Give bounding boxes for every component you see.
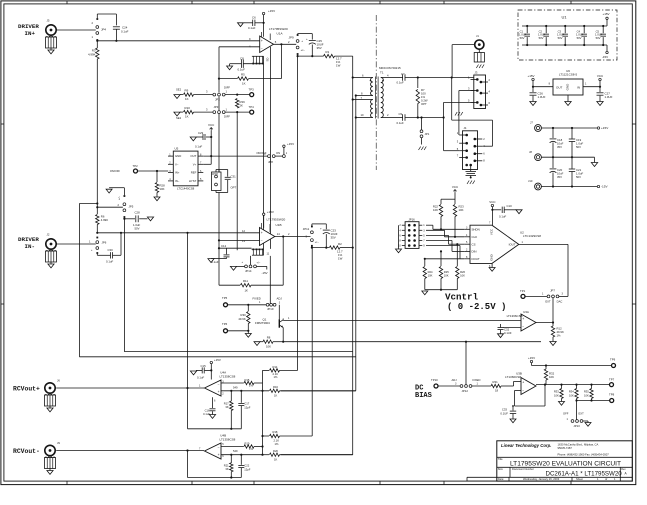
port label DRIVER IN+ bbox=[18, 23, 39, 37]
label Vcntrl bbox=[445, 292, 506, 312]
wire U5 OUT to JP8 bbox=[203, 155, 267, 157]
rail transformer left A bbox=[352, 56, 354, 455]
svg-text:C12: C12 bbox=[221, 244, 227, 248]
svg-text:R15: R15 bbox=[245, 378, 250, 382]
svg-text:+/−: +/− bbox=[301, 48, 306, 52]
capacitor C30 bbox=[97, 233, 121, 263]
isolation barrier dashed line bbox=[375, 15, 377, 170]
svg-text:10K: 10K bbox=[459, 208, 464, 212]
wire JP11 rail down to R18 bbox=[311, 248, 313, 436]
wire U4B inverting row bbox=[221, 454, 263, 456]
svg-text:Linear Technology Corp.: Linear Technology Corp. bbox=[501, 443, 551, 448]
test point TP6 bbox=[222, 322, 228, 333]
svg-text:C29: C29 bbox=[198, 131, 204, 135]
svg-text:-15V: -15V bbox=[601, 185, 608, 189]
svg-text:R34: R34 bbox=[569, 390, 574, 394]
capacitor C20 polarized bbox=[550, 157, 564, 186]
transformer T1 MIDCOM 50215 bbox=[364, 66, 401, 119]
svg-text:0.1uF: 0.1uF bbox=[238, 68, 246, 72]
ground J9 shield bbox=[45, 456, 56, 475]
capacitor C10 bbox=[492, 204, 517, 218]
svg-text:JP2: JP2 bbox=[215, 98, 220, 102]
svg-text:1630 McCarthy Blvd., Milpitas,: 1630 McCarthy Blvd., Milpitas, CA bbox=[558, 442, 599, 446]
svg-text:4.99K: 4.99K bbox=[88, 53, 96, 57]
svg-text:+15V: +15V bbox=[287, 142, 294, 146]
wire T1 primary left bbox=[352, 76, 364, 100]
svg-text:HYST: HYST bbox=[189, 179, 197, 183]
svg-text:LT1121CS8-5: LT1121CS8-5 bbox=[559, 73, 578, 77]
wire JP11 top to C23 bbox=[312, 224, 326, 229]
capacitor C15 bbox=[196, 364, 211, 380]
svg-text:SD: SD bbox=[266, 58, 270, 62]
wire R34 R35 to TP8 bbox=[577, 399, 610, 401]
svg-text:R14: R14 bbox=[273, 365, 278, 369]
svg-text:GND: GND bbox=[175, 154, 181, 158]
jumper JP18 bbox=[212, 172, 222, 191]
svg-text:U1A: U1A bbox=[277, 32, 284, 36]
power +15V bypass bbox=[602, 12, 609, 26]
svg-text:R5: R5 bbox=[241, 72, 245, 76]
capacitor C17 bbox=[238, 391, 250, 429]
wire U1B output bbox=[275, 232, 311, 238]
svg-text:0.1uF: 0.1uF bbox=[197, 375, 204, 379]
wire rail A down to R20 row bbox=[281, 454, 353, 456]
wire J3 pin5 net bbox=[443, 102, 474, 150]
svg-text:C1: C1 bbox=[520, 29, 524, 33]
svg-text:C2: C2 bbox=[539, 29, 543, 33]
capacitor C28 bbox=[123, 211, 147, 231]
svg-text:R18: R18 bbox=[273, 430, 278, 434]
banana jack J7 bbox=[530, 121, 541, 132]
BNC connector J1 bbox=[475, 34, 484, 49]
ground JP16 bbox=[396, 225, 402, 253]
banana jack J8 bbox=[529, 150, 541, 161]
wire U4B output to RCVout- bbox=[56, 449, 204, 451]
svg-text:50V: 50V bbox=[520, 36, 525, 40]
wire R1 to transformer rail bbox=[335, 55, 353, 57]
resistor R16 bbox=[270, 385, 356, 398]
ground R30 bbox=[245, 331, 251, 337]
bypass group U1 dashed box bbox=[518, 10, 617, 60]
wire U3A feedback loop bbox=[540, 323, 542, 342]
svg-text:C17: C17 bbox=[244, 402, 249, 406]
svg-text:R24: R24 bbox=[428, 270, 433, 274]
wire JP12 to R31 bbox=[472, 385, 491, 387]
svg-text:DIN: DIN bbox=[472, 250, 477, 254]
wire JP18 C31 net bbox=[216, 170, 228, 241]
ground C10 bbox=[516, 210, 522, 214]
svg-text:R33: R33 bbox=[554, 390, 559, 394]
power -15V bypass bbox=[602, 45, 608, 59]
banana jack J10 bbox=[528, 179, 541, 190]
power VCC R22 R23 bbox=[441, 185, 459, 204]
ground C33 bbox=[510, 419, 516, 423]
svg-text:DIFF: DIFF bbox=[224, 115, 230, 119]
ground C28 bbox=[147, 217, 153, 221]
svg-text:IN-: IN- bbox=[25, 243, 35, 250]
jumper JP11 bbox=[303, 226, 319, 247]
svg-text:50V: 50V bbox=[558, 36, 563, 40]
svg-text:1K: 1K bbox=[274, 458, 277, 462]
svg-text:0.1uF: 0.1uF bbox=[248, 26, 256, 30]
svg-text:R2: R2 bbox=[338, 242, 342, 246]
svg-text:1.0UF: 1.0UF bbox=[557, 33, 565, 37]
wire U4A output to U1B input rail bbox=[187, 233, 189, 429]
compensation pin stub U4A bbox=[213, 397, 217, 408]
svg-text:LT1795SW20: LT1795SW20 bbox=[267, 218, 286, 222]
svg-text:Wednesday, January 26, 2003: Wednesday, January 26, 2003 bbox=[523, 477, 560, 481]
svg-text:LT1358CS8: LT1358CS8 bbox=[220, 374, 236, 378]
wire C25 bottom to R1 bbox=[297, 45, 324, 58]
svg-text:U1B: U1B bbox=[276, 223, 282, 227]
ground R33 bbox=[559, 402, 565, 406]
wire R15 to node bbox=[261, 383, 263, 392]
jumper JP13 bbox=[563, 412, 584, 428]
BNC connector J9 bbox=[45, 441, 61, 456]
capacitor C26 bbox=[530, 87, 546, 102]
rail JP6 branch to U4 region bbox=[79, 356, 355, 358]
op-amp U1B bbox=[260, 218, 286, 246]
svg-text:TP7: TP7 bbox=[609, 378, 615, 382]
test point TP5 bbox=[222, 296, 228, 307]
wire J1 to J3 bbox=[452, 45, 475, 78]
power -15V JP14 bbox=[257, 266, 268, 275]
svg-text:12: 12 bbox=[242, 229, 245, 233]
svg-text:1K: 1K bbox=[185, 114, 189, 118]
svg-text:10K: 10K bbox=[266, 344, 271, 348]
svg-text:FMMT3904: FMMT3904 bbox=[255, 321, 270, 325]
resistor R15 bbox=[221, 378, 263, 390]
op-amp U3A bbox=[507, 310, 536, 331]
svg-text:+: + bbox=[261, 39, 263, 43]
wire JP7 to R12 node bbox=[552, 298, 554, 324]
svg-text:R19: R19 bbox=[245, 441, 250, 445]
port label DRIVER IN- bbox=[18, 236, 39, 250]
ground R24 R25 R26 bbox=[422, 289, 458, 295]
connector J4 bbox=[457, 126, 486, 170]
resistor R26 bbox=[456, 243, 466, 290]
ground R8 bbox=[254, 342, 260, 346]
svg-text:VCC: VCC bbox=[597, 74, 604, 78]
svg-text:ADJ: ADJ bbox=[277, 297, 283, 301]
svg-text:JP3: JP3 bbox=[214, 105, 219, 109]
test point TP2 bbox=[110, 164, 138, 173]
svg-text:18: 18 bbox=[495, 389, 499, 393]
svg-text:Size: Size bbox=[498, 467, 504, 471]
svg-text:JP18: JP18 bbox=[212, 172, 218, 176]
rail JP5 branch to U4 region bbox=[124, 351, 352, 353]
svg-text:ON: ON bbox=[276, 151, 280, 155]
resistor R2 bbox=[329, 242, 343, 261]
power VCC U2 bbox=[489, 200, 496, 207]
svg-text:0.1UF: 0.1UF bbox=[500, 412, 508, 416]
svg-text:J3: J3 bbox=[475, 71, 478, 75]
svg-text:VCC: VCC bbox=[490, 229, 494, 235]
svg-text:JP6: JP6 bbox=[102, 241, 107, 245]
svg-text:−: − bbox=[522, 325, 524, 329]
svg-text:1%: 1% bbox=[557, 334, 562, 338]
power +15V JP8 bbox=[283, 142, 294, 155]
capacitor C1 bbox=[519, 25, 530, 46]
resistor R7 bbox=[416, 78, 428, 119]
svg-text:TP3: TP3 bbox=[249, 87, 255, 91]
svg-text:Date:: Date: bbox=[498, 477, 504, 481]
svg-text:+: + bbox=[218, 390, 220, 394]
resistor R10 bbox=[174, 106, 213, 120]
svg-text:R21: R21 bbox=[224, 464, 229, 468]
svg-text:R8: R8 bbox=[267, 336, 271, 340]
svg-text:35V: 35V bbox=[557, 145, 562, 149]
wire U3B feedback bbox=[515, 384, 547, 407]
ground J8 bbox=[591, 163, 597, 167]
svg-text:C16: C16 bbox=[205, 409, 210, 413]
svg-text:0.1uF: 0.1uF bbox=[397, 121, 404, 125]
ground U6 GND pin bbox=[565, 95, 571, 106]
capacitor C31 bbox=[225, 170, 237, 193]
svg-text:1K: 1K bbox=[274, 394, 277, 398]
jumper JP5 bbox=[117, 195, 134, 218]
svg-text:TP8: TP8 bbox=[609, 392, 615, 396]
svg-text:OPT: OPT bbox=[421, 102, 427, 106]
wire U3B output bbox=[536, 384, 610, 386]
ground J6 shield bbox=[45, 393, 56, 412]
ground C26 bbox=[530, 102, 536, 106]
jumper JP10 bbox=[253, 297, 283, 312]
wire TP10 to JP12 bbox=[438, 382, 460, 386]
svg-text:35V: 35V bbox=[317, 46, 322, 50]
svg-text:+15V: +15V bbox=[268, 9, 275, 13]
resistor R39 bbox=[236, 99, 246, 109]
resistor R6 bbox=[96, 204, 109, 233]
svg-text:IOUT: IOUT bbox=[509, 242, 516, 246]
ground JP5 bbox=[106, 188, 124, 195]
jumper JP9 bbox=[289, 34, 306, 55]
svg-text:JP12: JP12 bbox=[462, 389, 469, 393]
svg-text:+: + bbox=[218, 453, 220, 457]
svg-text:-15V: -15V bbox=[262, 271, 268, 275]
test point TP7 bbox=[609, 378, 615, 387]
capacitor C32 bbox=[498, 324, 522, 335]
wire JP10 pin2 up bbox=[269, 256, 271, 304]
resistor R28 bbox=[154, 171, 165, 201]
wire SD bus verticals bbox=[264, 47, 271, 255]
wire C23 bottom to R2 bbox=[311, 234, 329, 249]
capacitor C4 bbox=[576, 25, 587, 46]
svg-text:+: + bbox=[320, 227, 322, 231]
wire to JP5 bbox=[96, 203, 123, 208]
capacitor C12 bbox=[211, 244, 252, 264]
svg-text:OUT: OUT bbox=[556, 86, 563, 90]
ground JP1 bbox=[419, 138, 427, 150]
BNC connector J6 bbox=[45, 379, 61, 394]
ground JP14 bbox=[230, 266, 244, 270]
svg-text:10: 10 bbox=[361, 113, 364, 117]
svg-text:10K: 10K bbox=[460, 274, 465, 278]
svg-text:V−: V− bbox=[175, 162, 179, 166]
svg-text:CLK: CLK bbox=[472, 235, 478, 239]
svg-text:J1: J1 bbox=[476, 34, 479, 38]
resistor R33 bbox=[554, 384, 563, 402]
wire rail B to R16 row bbox=[281, 390, 356, 392]
capacitor C2 bbox=[538, 25, 549, 46]
rail transformer left B bbox=[355, 96, 357, 391]
svg-text:4.99K: 4.99K bbox=[101, 218, 108, 222]
svg-text:GND: GND bbox=[566, 83, 570, 91]
IC U5 LTC1440CS8 bbox=[168, 146, 203, 190]
svg-text:ADJ: ADJ bbox=[452, 378, 458, 382]
svg-text:TP2: TP2 bbox=[133, 164, 139, 168]
svg-text:DC261A-A1 * LT1795SW20: DC261A-A1 * LT1795SW20 bbox=[546, 471, 623, 478]
svg-text:TP9: TP9 bbox=[610, 358, 616, 362]
wire JP4 top loop to C24 bbox=[97, 14, 116, 25]
wire R5 to U1A output bbox=[280, 43, 282, 78]
svg-text:10K: 10K bbox=[584, 393, 589, 397]
svg-text:C6: C6 bbox=[252, 16, 256, 20]
svg-text:C31: C31 bbox=[231, 175, 237, 179]
svg-text:+15V: +15V bbox=[267, 210, 274, 214]
wire T1 secondary taps bbox=[355, 94, 364, 118]
wire pin block to JP14 bbox=[219, 240, 251, 264]
pin numbers U1B bbox=[242, 229, 280, 243]
jumper JP4 bbox=[92, 18, 107, 41]
resistor R14 bbox=[263, 365, 298, 383]
wire C24 to +input rail bbox=[96, 29, 260, 42]
svg-text:JP10: JP10 bbox=[267, 307, 274, 311]
svg-text:DRIVER: DRIVER bbox=[18, 236, 39, 243]
wire U4B feedback loop bbox=[188, 451, 242, 479]
capacitor C5 bbox=[595, 25, 606, 46]
resistor R3 bbox=[88, 41, 99, 59]
power +15V U4A bbox=[210, 358, 221, 380]
svg-text:JP7: JP7 bbox=[550, 289, 555, 293]
svg-text:JP5: JP5 bbox=[129, 205, 134, 209]
port label RCVout- bbox=[13, 448, 40, 455]
resistor R9 bbox=[174, 88, 213, 101]
svg-text:RCVout+: RCVout+ bbox=[13, 386, 40, 393]
svg-text:R1: R1 bbox=[326, 50, 330, 54]
capacitor C27 bbox=[597, 87, 613, 102]
svg-text:JP1: JP1 bbox=[425, 132, 430, 136]
svg-text:C5: C5 bbox=[596, 29, 600, 33]
svg-text:R17: R17 bbox=[224, 402, 229, 406]
ground U2 GND pin bbox=[489, 263, 495, 271]
svg-text:C22: C22 bbox=[244, 464, 249, 468]
port label RCVout+ bbox=[13, 386, 40, 393]
svg-text:JP13: JP13 bbox=[573, 424, 580, 428]
svg-text:0.1uF: 0.1uF bbox=[195, 145, 202, 149]
capacitor C16 bbox=[203, 409, 215, 417]
resistor R19 bbox=[221, 441, 263, 453]
svg-text:+: + bbox=[306, 37, 308, 41]
label U1 bbox=[561, 15, 567, 20]
svg-text:LT1795SW20 EVALUATION CIRCUIT: LT1795SW20 EVALUATION CIRCUIT bbox=[510, 460, 621, 467]
capacitor C29 bbox=[195, 131, 212, 149]
svg-text:IN+: IN+ bbox=[175, 171, 180, 175]
resistor R24 bbox=[423, 258, 433, 290]
svg-text:1K: 1K bbox=[245, 288, 249, 292]
jumper JP1 bbox=[420, 116, 430, 137]
svg-text:10K: 10K bbox=[569, 393, 574, 397]
wire J3 pin3 net bbox=[459, 91, 474, 136]
svg-text:DRIVER: DRIVER bbox=[18, 23, 39, 30]
test point TP9 bbox=[610, 358, 616, 368]
ground J5 shield bbox=[46, 35, 57, 54]
capacitor C8 bbox=[230, 57, 246, 72]
svg-text:OUT: OUT bbox=[190, 154, 196, 158]
jumper JP12 bbox=[452, 378, 481, 393]
pin numbers U4A bbox=[199, 380, 224, 395]
svg-text:50V: 50V bbox=[135, 226, 140, 230]
ground stub J3 bbox=[455, 112, 463, 116]
svg-text:C3: C3 bbox=[558, 29, 562, 33]
svg-text:BIAS: BIAS bbox=[415, 392, 432, 400]
svg-text:C8: C8 bbox=[240, 57, 244, 61]
wire J8 ground bbox=[541, 156, 594, 162]
capacitor C22 bbox=[238, 455, 250, 478]
power +15V U3B bbox=[528, 356, 535, 366]
capacitor C7 bbox=[389, 72, 405, 84]
wire inverting rail down bbox=[218, 97, 220, 173]
svg-text:50V: 50V bbox=[576, 175, 581, 179]
svg-text:TP10: TP10 bbox=[431, 378, 438, 382]
test point TP4 bbox=[249, 105, 255, 114]
svg-text:−: − bbox=[261, 47, 263, 51]
resistor R35 bbox=[584, 384, 593, 401]
ground C8 bbox=[227, 64, 233, 70]
capacitor C21 bbox=[569, 157, 584, 186]
wire feedback line U3A bbox=[283, 341, 541, 343]
resistor R25 bbox=[439, 250, 449, 289]
svg-text:SHDN: SHDN bbox=[472, 227, 480, 231]
ground C29 bbox=[190, 137, 196, 141]
wire Q1 collector line bbox=[283, 317, 521, 321]
svg-text:10K: 10K bbox=[433, 208, 438, 212]
svg-text:TP4: TP4 bbox=[249, 105, 255, 109]
svg-text:OPT: OPT bbox=[231, 186, 237, 190]
title block box bbox=[467, 441, 632, 481]
svg-text:J10: J10 bbox=[528, 179, 533, 183]
svg-text:1.0UF: 1.0UF bbox=[605, 95, 613, 99]
svg-text:1.0UF: 1.0UF bbox=[538, 33, 546, 37]
svg-text:49.9K: 49.9K bbox=[238, 317, 245, 321]
svg-text:TP6: TP6 bbox=[222, 322, 228, 326]
svg-text:1%: 1% bbox=[249, 384, 253, 388]
ground C6 bbox=[238, 23, 244, 27]
svg-text:JP9: JP9 bbox=[289, 36, 295, 40]
svg-text:+: + bbox=[301, 39, 303, 43]
IC U6 LT1121CS8-5 bbox=[549, 69, 587, 95]
jumper JP3 bbox=[206, 105, 230, 119]
svg-text:LT1358CS8: LT1358CS8 bbox=[220, 437, 236, 441]
wire J5 to JP4 bbox=[56, 29, 96, 31]
power +15V U1A bbox=[262, 9, 275, 37]
svg-text:50V: 50V bbox=[577, 36, 582, 40]
svg-text:SE2: SE2 bbox=[176, 88, 182, 92]
BNC connector J2 bbox=[46, 233, 56, 250]
svg-text:1K: 1K bbox=[185, 97, 189, 101]
svg-text:J7: J7 bbox=[530, 121, 533, 125]
capacitor C23 polarized bbox=[320, 227, 338, 240]
transistor Q1 FMMT3904 bbox=[255, 305, 283, 342]
svg-text:0.1uF: 0.1uF bbox=[203, 412, 210, 416]
svg-text:1%: 1% bbox=[249, 447, 253, 451]
svg-text:R20: R20 bbox=[273, 449, 278, 453]
long rail from JP9 down bbox=[297, 56, 299, 370]
wire JP3 to TP4 bbox=[225, 111, 250, 113]
svg-text:REF: REF bbox=[191, 171, 197, 175]
svg-text:C9: C9 bbox=[399, 112, 403, 116]
svg-text:IN+: IN+ bbox=[25, 30, 36, 37]
